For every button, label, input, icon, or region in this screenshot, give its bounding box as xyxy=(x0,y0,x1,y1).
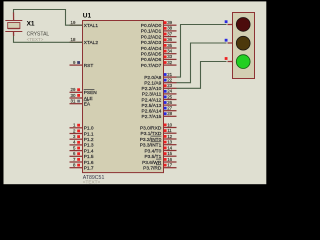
pin 32 P0.7/AD7 xyxy=(141,60,177,69)
pin 26 P2.5/A13 xyxy=(142,100,177,109)
pin 25 P2.4/A12 xyxy=(142,94,177,103)
wire P2.0 (pin 21) to traffic light RED input xyxy=(177,25,227,78)
svg-text:23: 23 xyxy=(167,83,172,88)
svg-text:27: 27 xyxy=(167,106,172,111)
pin 17 P3.7/RD xyxy=(143,163,176,172)
svg-text:P0.7/AD7: P0.7/AD7 xyxy=(141,63,162,69)
svg-text:P0.2/AD2: P0.2/AD2 xyxy=(141,34,162,40)
svg-text:16: 16 xyxy=(167,157,172,162)
pin 6 P1.5 xyxy=(70,151,94,160)
wire P2.1 (pin 22) to traffic light AMBER input xyxy=(177,43,227,83)
svg-text:EA: EA xyxy=(84,101,91,107)
svg-text:X1: X1 xyxy=(27,20,35,27)
svg-text:P0.3/AD3: P0.3/AD3 xyxy=(141,40,162,46)
svg-text:P0.5/AD5: P0.5/AD5 xyxy=(141,51,162,57)
svg-text:P3.4/T0: P3.4/T0 xyxy=(144,148,161,154)
svg-text:21: 21 xyxy=(167,72,172,77)
svg-text:P1.7: P1.7 xyxy=(84,165,94,171)
svg-text:33: 33 xyxy=(167,54,172,59)
pin 2 P1.1 xyxy=(70,128,94,137)
pin 37 P0.2/AD2 xyxy=(141,31,177,40)
pin 30 ALE xyxy=(70,93,93,102)
svg-text:24: 24 xyxy=(167,89,172,94)
svg-text:P2.5/A13: P2.5/A13 xyxy=(142,103,162,109)
pin 35 P0.4/AD4 xyxy=(141,43,177,52)
pin 23 P2.2/A10 xyxy=(142,83,177,92)
svg-text:P2.7/A15: P2.7/A15 xyxy=(142,114,162,120)
pin 7 P1.6 xyxy=(70,157,94,166)
svg-text:RST: RST xyxy=(84,63,94,69)
wire crystal bottom to XTAL2 (pin 18) xyxy=(14,32,83,42)
crystal X1 xyxy=(5,21,22,32)
svg-text:39: 39 xyxy=(167,20,172,25)
traffic light amber lamp (off) xyxy=(236,36,250,50)
svg-text:XTAL1: XTAL1 xyxy=(84,23,99,29)
svg-text:17: 17 xyxy=(167,163,172,168)
pin 27 P2.6/A14 xyxy=(142,106,177,115)
pin 1 P1.0 xyxy=(70,123,94,132)
svg-text:PSEN: PSEN xyxy=(84,90,98,96)
svg-text:19: 19 xyxy=(71,20,76,25)
svg-text:25: 25 xyxy=(167,94,172,99)
svg-text:15: 15 xyxy=(167,151,172,156)
traffic light green lamp (lit) xyxy=(236,55,250,69)
pin 12 P3.2/INT0 xyxy=(140,134,177,143)
svg-text:10: 10 xyxy=(167,122,172,127)
pin 9 RST xyxy=(70,60,94,69)
svg-text:P0.6/AD6: P0.6/AD6 xyxy=(141,57,162,63)
pin 14 P3.4/T0 xyxy=(144,145,176,154)
pin 29 PSEN xyxy=(70,87,98,96)
svg-text:P2.0/A8: P2.0/A8 xyxy=(144,75,161,81)
traffic light AMBER pin stub xyxy=(225,39,233,43)
svg-text:P3.3/INT1: P3.3/INT1 xyxy=(140,142,162,148)
pin 38 P0.1/AD1 xyxy=(141,26,177,35)
pin 22 P2.1/A9 xyxy=(144,78,176,87)
pin 34 P0.5/AD5 xyxy=(141,49,177,58)
microcontroller U1 AT89C51 body xyxy=(83,21,164,173)
svg-text:P2.2/A10: P2.2/A10 xyxy=(142,86,162,92)
crystal pin stub bottom xyxy=(13,32,15,36)
pin 8 P1.7 xyxy=(70,163,94,172)
svg-text:P1.1: P1.1 xyxy=(84,131,94,137)
svg-text:14: 14 xyxy=(167,145,172,150)
pin 4 P1.3 xyxy=(70,140,94,149)
svg-text:30: 30 xyxy=(71,93,76,98)
pin 13 P3.3/INT1 xyxy=(140,140,177,149)
pin 11 P3.1/TXD xyxy=(141,128,177,137)
svg-text:P2.3/A11: P2.3/A11 xyxy=(142,92,162,98)
svg-text:35: 35 xyxy=(167,43,172,48)
svg-text:29: 29 xyxy=(71,87,76,92)
pin 15 P3.5/T1 xyxy=(144,151,176,160)
svg-text:13: 13 xyxy=(167,140,172,145)
pin 19 XTAL1 xyxy=(70,20,99,29)
crystal pin stub top xyxy=(13,13,15,21)
svg-text:P2.6/A14: P2.6/A14 xyxy=(142,108,162,114)
wire crystal top to XTAL1 (pin 19) xyxy=(14,10,83,26)
pin 10 P3.0/RXD xyxy=(140,122,177,131)
svg-text:37: 37 xyxy=(167,31,172,36)
svg-text:38: 38 xyxy=(167,26,172,31)
pin 28 P2.7/A15 xyxy=(142,111,177,120)
svg-text:11: 11 xyxy=(167,128,172,133)
svg-text:XTAL2: XTAL2 xyxy=(84,40,99,46)
wire P2.2 (pin 23) to traffic light GREEN input xyxy=(177,62,227,89)
svg-text:U1: U1 xyxy=(83,13,92,20)
svg-text:P1.0: P1.0 xyxy=(84,126,94,132)
pin 18 XTAL2 xyxy=(70,37,99,46)
pin 24 P2.3/A11 xyxy=(142,89,177,98)
pin 16 P3.6/WR xyxy=(142,157,176,166)
svg-text:P1.4: P1.4 xyxy=(84,148,94,154)
pin 5 P1.4 xyxy=(70,145,94,154)
svg-text:P3.7/RD: P3.7/RD xyxy=(143,165,162,171)
svg-text:22: 22 xyxy=(167,78,172,83)
svg-text:P1.2: P1.2 xyxy=(84,137,94,143)
svg-text:36: 36 xyxy=(167,37,172,42)
traffic light body xyxy=(233,13,255,79)
pin 36 P0.3/AD3 xyxy=(141,37,177,46)
traffic light GREEN pin stub xyxy=(225,57,233,61)
svg-text:<TEXT>: <TEXT> xyxy=(83,179,101,184)
svg-text:P3.0/RXD: P3.0/RXD xyxy=(140,125,162,131)
svg-text:P1.6: P1.6 xyxy=(84,160,94,166)
pin 31 EA xyxy=(70,99,91,108)
svg-text:P0.4/AD4: P0.4/AD4 xyxy=(141,46,162,52)
svg-text:P1.5: P1.5 xyxy=(84,154,94,160)
svg-text:<TEXT>: <TEXT> xyxy=(27,37,44,42)
svg-text:P1.3: P1.3 xyxy=(84,143,94,149)
pin 39 P0.0/AD0 xyxy=(141,20,177,29)
svg-text:12: 12 xyxy=(167,134,172,139)
svg-text:P2.4/A12: P2.4/A12 xyxy=(142,97,162,103)
pin 21 P2.0/A8 xyxy=(144,72,176,81)
svg-text:31: 31 xyxy=(71,99,76,104)
svg-text:34: 34 xyxy=(167,49,172,54)
svg-text:28: 28 xyxy=(167,111,172,116)
svg-text:P2.1/A9: P2.1/A9 xyxy=(144,80,161,86)
svg-text:P0.0/AD0: P0.0/AD0 xyxy=(141,23,162,29)
svg-text:32: 32 xyxy=(167,60,172,65)
svg-text:P0.1/AD1: P0.1/AD1 xyxy=(141,29,162,35)
svg-text:26: 26 xyxy=(167,100,172,105)
pin 3 P1.2 xyxy=(70,134,94,143)
traffic light red lamp (off) xyxy=(236,18,250,32)
pin 33 P0.6/AD6 xyxy=(141,54,177,63)
traffic light RED pin stub xyxy=(225,20,233,24)
svg-text:18: 18 xyxy=(71,37,76,42)
